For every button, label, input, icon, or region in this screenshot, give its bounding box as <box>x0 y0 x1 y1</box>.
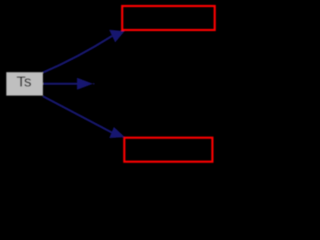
edge Ts to top box <box>43 36 112 73</box>
svg-text:Ts: Ts <box>17 74 32 91</box>
node: top dependency box (red, truncated) <box>122 6 215 30</box>
node: bottom dependency box (red, truncated) <box>124 138 212 162</box>
edge Ts to middle (hidden node) <box>43 83 78 85</box>
edge Ts to bottom box <box>43 96 112 132</box>
node Ts (current, gray) <box>6 72 43 95</box>
